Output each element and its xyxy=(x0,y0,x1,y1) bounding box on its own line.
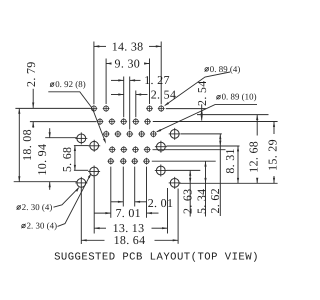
svg-text:8. 31: 8. 31 xyxy=(223,148,237,174)
svg-text:18. 08: 18. 08 xyxy=(20,129,34,161)
svg-text:2. 01: 2. 01 xyxy=(148,196,174,210)
svg-text:18. 64: 18. 64 xyxy=(114,233,146,247)
svg-text:2. 30 (4): 2. 30 (4) xyxy=(27,220,58,230)
svg-text:2. 54: 2. 54 xyxy=(151,87,177,101)
svg-text:2. 62: 2. 62 xyxy=(208,188,222,214)
svg-text:7. 01: 7. 01 xyxy=(115,206,141,220)
svg-text:SUGGESTED PCB LAYOUT(TOP VIEW): SUGGESTED PCB LAYOUT(TOP VIEW) xyxy=(54,252,259,264)
svg-text:12. 68: 12. 68 xyxy=(247,141,261,173)
svg-text:2. 54: 2. 54 xyxy=(195,80,209,106)
svg-text:9. 30: 9. 30 xyxy=(115,56,141,70)
svg-text:5. 34: 5. 34 xyxy=(194,189,208,215)
svg-text:2. 63: 2. 63 xyxy=(180,189,194,215)
svg-text:0. 89 (4): 0. 89 (4) xyxy=(210,64,241,74)
svg-text:1. 27: 1. 27 xyxy=(144,73,170,87)
svg-text:10. 94: 10. 94 xyxy=(35,144,49,176)
svg-text:15. 29: 15. 29 xyxy=(266,139,280,171)
svg-text:5. 68: 5. 68 xyxy=(60,147,74,173)
svg-text:0. 92 (8): 0. 92 (8) xyxy=(55,79,86,89)
svg-text:14. 38: 14. 38 xyxy=(112,39,144,53)
svg-text:2. 30 (4): 2. 30 (4) xyxy=(22,202,53,212)
svg-text:0. 89 (10): 0. 89 (10) xyxy=(222,92,257,102)
svg-text:2. 79: 2. 79 xyxy=(24,61,38,87)
